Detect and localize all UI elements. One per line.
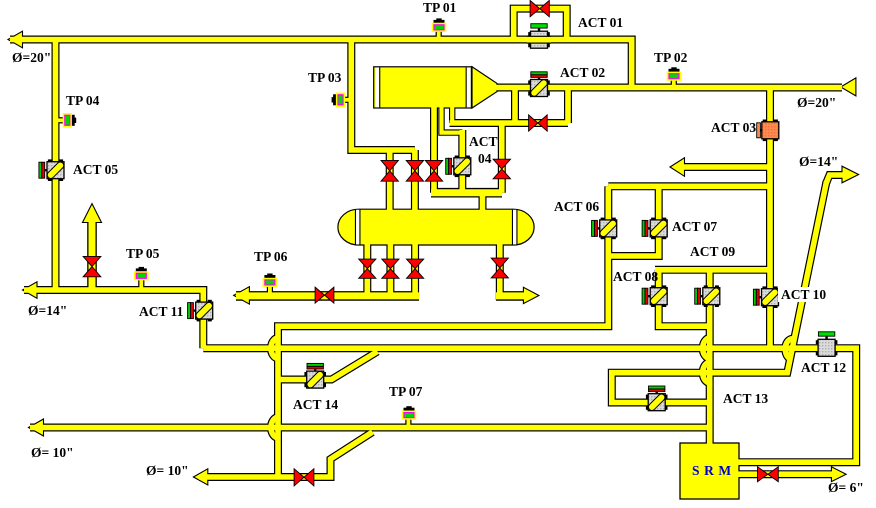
label ACT13 <box>723 392 768 405</box>
wire drum bottom riser 2 (outline) <box>386 243 394 296</box>
junction hop L1 column over H1 <box>271 338 278 358</box>
wire ACT07 column + tee to ACT06 (outline) <box>608 186 658 256</box>
junction hop 14in diagonal over H1 <box>785 339 793 359</box>
arrow 14in line left <box>23 282 38 299</box>
arrow 14in diagonal right <box>842 166 859 183</box>
test point TP04 <box>63 113 77 128</box>
actuator ACT03 <box>763 120 778 142</box>
wire manifold header above drum (outline) <box>431 188 502 198</box>
wire V2 riser <box>412 150 418 213</box>
label ACT14 <box>293 398 338 411</box>
wire H1 long line to ACT12 and SRM (outline) <box>203 348 856 462</box>
label ACT07 <box>672 220 717 233</box>
valve V6 <box>382 259 399 278</box>
wire TP04 stem (outline) <box>57 117 64 123</box>
arrow 20in inlet right side <box>841 78 856 96</box>
test point TP06 <box>263 274 278 288</box>
wire TP06 stem (outline) <box>267 285 273 297</box>
actuator ACT02 <box>528 80 550 95</box>
junction hop L1 column over 10in line <box>271 417 278 437</box>
wire ACT08 column elbow to ACT09 column (outline) <box>659 270 710 326</box>
arrow TP06 line left <box>234 287 250 304</box>
arrow 10in line left <box>29 419 44 436</box>
wire vessel nozzle C to bypass line (outline) <box>449 104 455 123</box>
label O20 right <box>797 96 836 109</box>
valve V7 <box>407 259 424 278</box>
label ACT06 <box>554 200 599 213</box>
wire H1 long line to ACT12 and SRM <box>203 348 856 462</box>
label O10 lower <box>146 464 189 477</box>
wire 6in line from SRM (outline) <box>737 470 834 478</box>
drum separator vessel <box>338 209 534 245</box>
label TP06 <box>254 250 287 263</box>
wire drum bottom riser 2 <box>388 243 394 296</box>
label TP05 <box>126 247 159 260</box>
valve vent riser <box>83 256 101 276</box>
valve ACT01 bypass <box>530 0 549 16</box>
wire TP06 stem <box>268 285 272 297</box>
wire TP01 stem <box>437 30 441 37</box>
arrow upper manifold left <box>670 158 685 177</box>
wire 14in line + ACT11 column (outline) <box>24 290 203 348</box>
wire TP01 stem (outline) <box>436 30 442 37</box>
wire TP03 column + V1 V2 manifold <box>351 40 415 151</box>
wire ACT02 bypass right riser <box>565 88 571 124</box>
label ACT12 <box>801 361 846 374</box>
actuator ACT07 <box>651 218 666 240</box>
actuator ACT11 <box>197 300 212 322</box>
wire ACT01 bypass loop <box>514 9 567 40</box>
actuator ACT05 <box>48 159 63 181</box>
actuator ACT14 <box>304 372 326 387</box>
junction hop L1 column over 10in line (outline) <box>271 417 278 437</box>
label O6 <box>828 481 864 494</box>
junction hop ACT09 column over H2 (outline) <box>703 362 710 382</box>
wire bottom 10in line + diagonal (outline) <box>199 432 373 477</box>
wire V2 riser (outline) <box>411 150 419 213</box>
valve V3 <box>425 160 442 181</box>
wire header drop into drum <box>480 193 486 213</box>
junction hop 14in diagonal over H1 (outline) <box>785 339 793 359</box>
wire ACT03 ACT10 column (outline) <box>766 88 774 349</box>
valve V1 <box>381 160 398 181</box>
wire 14in diagonal top elbow to arrow <box>826 175 845 184</box>
wire H2 line + elbow + ACT13 loop + 14in diagonal (outline) <box>612 182 827 403</box>
junction hop ACT09 column over H1 <box>703 338 710 358</box>
arrow 6in line right <box>831 467 846 482</box>
wire TP06 header line (outline) <box>236 291 419 301</box>
wire V4 drop line (outline) <box>498 123 506 193</box>
wire ACT14 branch + diagonal to H1 (outline) <box>278 352 378 380</box>
test point TP03 <box>332 93 346 108</box>
valve ACT02 bypass <box>529 115 548 131</box>
wire ACT02 line (vessel outlet to 20in inlet) (outline) <box>494 84 842 92</box>
wire V1 riser (outline) <box>386 150 394 213</box>
valve V4 <box>493 159 510 179</box>
wire ACT09 manifold <box>655 267 770 273</box>
wire TP05 stem (outline) <box>138 279 144 292</box>
wire vent riser with up arrow (outline) <box>87 218 97 290</box>
wire drum bottom riser 1 (outline) <box>363 243 371 296</box>
wire 10in line (outline) <box>30 424 710 432</box>
wire TP07 stem <box>406 417 410 429</box>
valve V8 <box>491 258 508 278</box>
actuator ACT12 <box>816 340 838 355</box>
label TP01 <box>423 1 456 14</box>
wire ACT05 column <box>53 40 59 291</box>
wire V8 line to right arrow <box>500 243 526 296</box>
label ACT10 <box>778 287 829 302</box>
wire upper left arrow line <box>682 164 770 170</box>
wire manifold header above drum <box>431 189 502 196</box>
wire 10in line <box>30 425 710 431</box>
label ACT05 <box>73 163 118 176</box>
actuator ACT04 <box>455 156 470 178</box>
wire ACT09 column down to SRM <box>707 270 713 445</box>
wire TP06 header line <box>236 292 419 299</box>
test point TP07 <box>402 406 417 420</box>
valve TP06 line <box>315 287 334 303</box>
wire ACT06 column + L1 + left drop column (outline) <box>278 186 608 477</box>
wire TP05 stem <box>139 279 143 292</box>
wire ACT06 column + L1 + left drop column <box>278 186 608 477</box>
wire ACT03 ACT10 column <box>767 88 773 349</box>
label ACT02 <box>560 66 605 79</box>
wire ACT07 column + tee to ACT06 <box>608 186 658 256</box>
test point TP02 <box>667 67 682 81</box>
wire H2 line + elbow + ACT13 loop + 14in diagonal <box>612 182 827 403</box>
wire V4 drop line <box>499 123 505 193</box>
wire upper manifold to ACT03 column (outline) <box>608 182 770 190</box>
wire 14in line + ACT11 column <box>24 290 203 348</box>
wire ACT02 line (vessel outlet to 20in inlet) <box>494 85 842 91</box>
wire V8 line to right arrow (outline) <box>500 243 526 296</box>
wire vessel nozzle C to bypass line <box>450 104 454 123</box>
wire 20in main line + elbow to ACT02 line (outline) <box>10 40 632 88</box>
label O10 upper <box>31 446 74 459</box>
label ACT01 <box>578 16 623 29</box>
wire vessel nozzle A through V3 <box>431 104 437 193</box>
label TP04 <box>66 94 99 107</box>
arrow 20in outlet left <box>8 31 23 48</box>
label ACT04 line2 <box>478 152 492 165</box>
wire drum bottom riser 3 (outline) <box>411 243 419 296</box>
wire ACT02 bypass bottom line <box>450 120 569 126</box>
wire upper manifold to ACT03 column <box>608 184 770 190</box>
label O14 left <box>28 304 67 317</box>
test point TP05 <box>134 267 149 281</box>
label O20 left <box>12 51 51 64</box>
actuator ACT13 <box>646 395 668 410</box>
wire bottom 10in line + diagonal <box>199 432 373 477</box>
wire V1 riser <box>387 150 393 213</box>
wire TP07 stem (outline) <box>405 417 411 429</box>
wire ACT04 riser <box>459 130 465 193</box>
wire ACT08 column elbow to ACT09 column <box>659 270 710 326</box>
wire vessel nozzle A through V3 (outline) <box>430 104 438 193</box>
valve V5 <box>359 259 376 278</box>
wire upper left arrow line (outline) <box>682 163 770 171</box>
label ACT11 <box>139 305 183 318</box>
wire TP03 stem (outline) <box>343 97 349 103</box>
actuator ACT10 <box>762 286 777 308</box>
wire ACT09 column down to SRM (outline) <box>706 270 714 445</box>
wire vessel nozzle B elbow (outline) <box>442 104 463 133</box>
wire ACT04 riser (outline) <box>458 130 466 193</box>
arrow bottom 10in left <box>193 469 207 485</box>
junction hop ACT09 column over H2 <box>703 362 710 382</box>
wire TP03 stem <box>343 98 349 102</box>
valve bottom 10in line <box>294 469 314 486</box>
wire ACT02 bypass left riser (outline) <box>511 88 519 124</box>
wire ACT05 column (outline) <box>52 40 60 291</box>
SRM box <box>680 443 739 499</box>
wire TP03 column + V1 V2 manifold (outline) <box>351 40 415 151</box>
junction hop ACT09 column over H1 (outline) <box>703 338 710 358</box>
wire V8 header horizontal <box>496 292 526 299</box>
wire 6in line from SRM <box>737 471 834 477</box>
wire ACT02 bypass right riser (outline) <box>564 88 572 124</box>
wire V8 header horizontal (outline) <box>496 291 526 301</box>
wire vent riser with up arrow <box>89 218 96 290</box>
valve 6in line <box>758 467 779 482</box>
label ACT09 <box>690 245 735 258</box>
SRM text <box>692 463 732 479</box>
label TP03 <box>308 71 341 84</box>
wire drum bottom riser 1 <box>364 243 370 296</box>
actuator ACT08 <box>651 285 666 307</box>
label ACT04 line1 <box>469 135 498 148</box>
arrow vent riser up <box>83 204 102 223</box>
label O14 right <box>799 155 838 168</box>
wire ACT09 manifold (outline) <box>655 266 770 274</box>
wire ACT14 branch + diagonal to H1 <box>278 352 378 380</box>
test point TP01 <box>432 18 447 32</box>
wire ACT02 bypass bottom line (outline) <box>450 119 569 127</box>
wire TP02 stem (outline) <box>671 78 677 85</box>
vessel top separator <box>374 67 497 108</box>
label TP02 <box>654 51 687 64</box>
label ACT08 <box>613 270 658 283</box>
wire vessel nozzle B elbow <box>442 104 463 133</box>
wire drum bottom riser 3 <box>412 243 418 296</box>
wire TP04 stem <box>57 118 64 122</box>
wire ACT02 bypass left riser <box>512 88 518 124</box>
arrow V8 line right <box>523 287 539 303</box>
junction hop L1 column over H1 (outline) <box>271 338 278 358</box>
label TP07 <box>389 385 422 398</box>
label ACT03 <box>711 121 756 134</box>
wire 20in main line + elbow to ACT02 line <box>10 40 632 88</box>
wire TP02 stem <box>672 78 676 85</box>
wire header drop into drum (outline) <box>479 193 487 213</box>
wire 14in diagonal top elbow to arrow (outline) <box>826 175 845 184</box>
actuator ACT01 <box>528 32 550 47</box>
actuator ACT06 <box>601 218 616 240</box>
wire ACT01 bypass loop (outline) <box>514 9 567 40</box>
valve V2 <box>406 160 423 181</box>
actuator ACT09 <box>704 285 719 307</box>
